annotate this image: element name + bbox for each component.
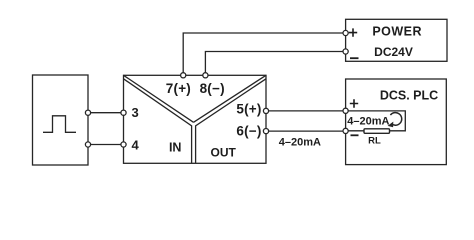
svg-text:DCS. PLC: DCS. PLC (380, 88, 438, 102)
svg-text:POWER: POWER (372, 24, 422, 38)
svg-text:6(−): 6(−) (236, 123, 261, 138)
svg-text:3: 3 (132, 105, 139, 120)
svg-text:IN: IN (169, 141, 182, 155)
svg-text:RL: RL (368, 135, 381, 146)
svg-text:4–20mA: 4–20mA (347, 115, 389, 127)
svg-text:7(+): 7(+) (166, 81, 191, 96)
svg-text:4–20mA: 4–20mA (279, 136, 321, 148)
svg-text:OUT: OUT (211, 145, 237, 159)
svg-text:5(+): 5(+) (236, 101, 261, 116)
svg-text:DC24V: DC24V (374, 45, 413, 59)
svg-text:4: 4 (132, 138, 140, 153)
svg-text:8(−): 8(−) (200, 81, 225, 96)
